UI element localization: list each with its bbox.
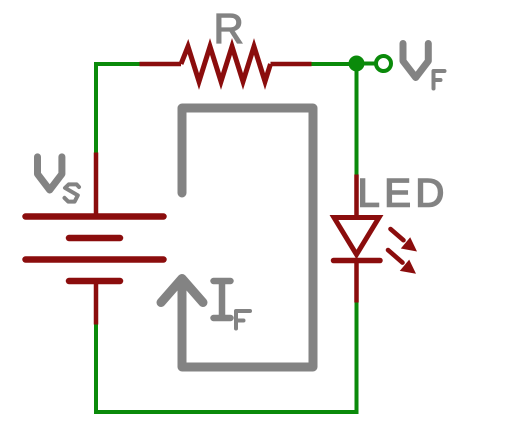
label IF (subscript F) — [236, 311, 250, 329]
svg-text:LED: LED — [358, 172, 449, 216]
label VF (subscript F) — [434, 71, 445, 89]
battery VS (plate 3, long positive) — [26, 256, 164, 263]
wire (dark red lead from top wire into resistor) — [140, 62, 182, 67]
wire (green, right side from node down to LED anode lead) — [355, 70, 359, 175]
current arrow IF (chevron arrowhead pointing up) — [161, 279, 203, 303]
wire (green, top-left + left side from corner to battery lead) — [96, 64, 140, 153]
label VS (subscript s) — [65, 184, 80, 201]
label VS (stylized V glyph) — [38, 157, 62, 190]
wire (green stub from junction dot to open terminal) — [364, 62, 375, 66]
battery VS (plate 1, long positive) — [26, 213, 164, 220]
LED (triangle body) — [334, 218, 379, 255]
wire (dark red LED cathode lead) — [354, 258, 359, 303]
LED (cathode bar) — [334, 258, 381, 264]
wire (dark red LED anode lead) — [354, 175, 359, 219]
LED (light emission arrow 2) — [388, 250, 416, 274]
wire (green segment from resistor lead to node VF) — [312, 62, 351, 66]
node VF (filled junction dot) — [349, 56, 365, 72]
label IF (serif I glyph) — [214, 281, 231, 318]
LED (light emission arrow 1) — [391, 229, 418, 252]
label VF (stylized V glyph) — [403, 44, 428, 78]
resistor R (zigzag body) — [181, 47, 271, 82]
label R (resistor name) — [214, 5, 244, 52]
wire (dark red battery bottom lead) — [94, 281, 99, 325]
terminal (open circle at node VF) — [376, 56, 391, 71]
wire (green, bottom loop: left side below battery, bottom, right side up to LED) — [96, 303, 357, 413]
svg-text:R: R — [214, 5, 244, 52]
label LED (diode name) — [358, 172, 449, 216]
current loop (gray path around circuit interior) — [182, 108, 313, 367]
wire (dark red lead from resistor to the right) — [271, 62, 312, 67]
wire (dark red battery top lead) — [94, 153, 99, 215]
battery VS (plate 4, short negative) — [69, 278, 120, 285]
battery VS (plate 2, short negative) — [69, 235, 120, 242]
